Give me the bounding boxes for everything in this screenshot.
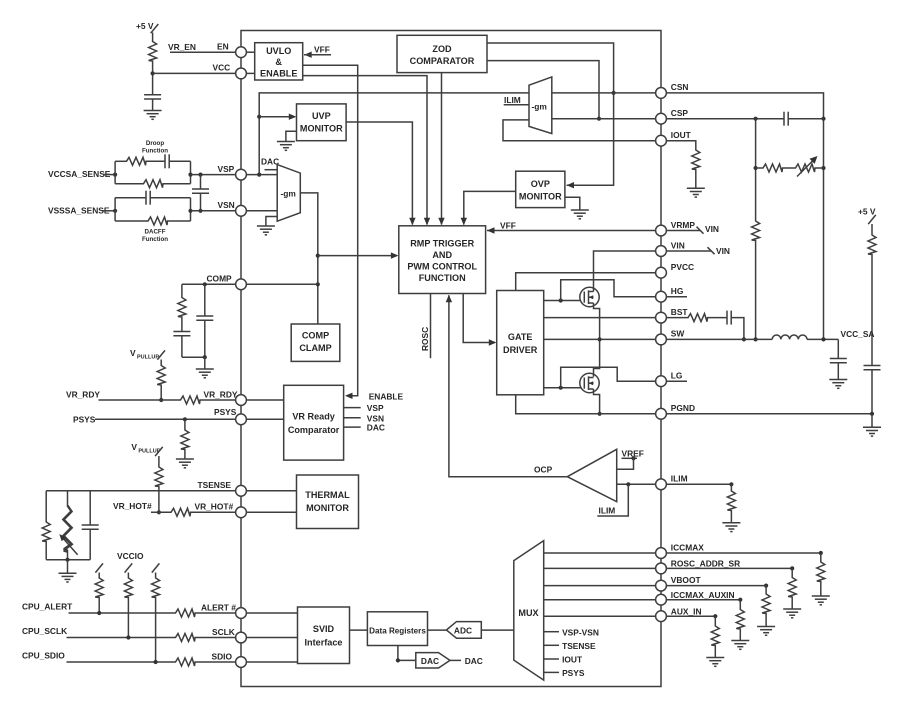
node VBOOT pulldown xyxy=(764,584,768,588)
pin VBOOT xyxy=(656,575,702,591)
wire VSP pin to droop amp xyxy=(246,174,277,176)
wire DACFF network left bar xyxy=(114,198,116,221)
node thermistor network bottom xyxy=(65,558,69,562)
node ZOD CSP junction xyxy=(597,117,601,121)
wire resistor to VCC node xyxy=(152,62,154,94)
wire gate driver SW output xyxy=(544,338,656,340)
svg-text:CPU_SCLK: CPU_SCLK xyxy=(22,626,67,636)
svg-text:VSP-VSN: VSP-VSN xyxy=(562,627,599,637)
resistor +5V PVCC xyxy=(868,234,876,256)
wire droop network to VSP pin xyxy=(191,174,236,176)
svg-text:VRMP: VRMP xyxy=(671,220,696,230)
pin ALERT# xyxy=(201,602,246,618)
wire DACFF network to VSN pin xyxy=(191,210,236,212)
wire VBOOT pin external xyxy=(666,585,766,587)
wire VFF from VRMP pin to RMP trigger xyxy=(487,227,656,233)
ground ICCMAX_AUXIN xyxy=(731,641,749,650)
op-amp droop -gm xyxy=(277,165,300,222)
wire UVP monitor ground lead xyxy=(286,131,297,141)
block SVID Interface xyxy=(298,607,350,664)
node VR_HOT# pullup xyxy=(157,510,161,514)
block GATE DRIVER xyxy=(497,291,544,395)
svg-text:THERMAL: THERMAL xyxy=(305,490,350,500)
resistor VBOOT pulldown xyxy=(762,586,770,627)
pin IOUT xyxy=(656,130,692,146)
wire PSYS to pin xyxy=(95,418,236,420)
svg-text:V: V xyxy=(131,442,137,452)
resistor BST xyxy=(687,314,709,322)
net VSP stub at comparator xyxy=(344,403,384,413)
wire TSENSE pin to thermal monitor xyxy=(246,490,296,492)
resistor VR_HOT# pullup xyxy=(155,466,163,488)
net ROSC stub from RMP trigger xyxy=(420,294,431,359)
svg-text:+5 V: +5 V xyxy=(136,21,154,31)
wire SCLK pin to SVID xyxy=(246,637,297,639)
wire CSP vertical to SW xyxy=(755,119,757,220)
ground VCC cap xyxy=(144,111,162,120)
node VCC junction xyxy=(151,71,155,75)
inductor L1 xyxy=(772,335,807,339)
wire VCC pin to UVLO xyxy=(246,72,254,74)
node ZOD CSN junction xyxy=(612,91,616,95)
wire comp network to ground xyxy=(204,357,206,369)
wire CS amp to CSP pin xyxy=(552,118,656,120)
svg-text:DAC: DAC xyxy=(465,656,483,666)
pin SW xyxy=(656,329,685,345)
capacitor thermistor network xyxy=(82,525,99,529)
wire DAC stub into droop amp xyxy=(265,169,278,171)
ground ICCMAX xyxy=(812,596,830,605)
wire V_PULLUP to resistor xyxy=(160,360,162,365)
svg-text:DRIVER: DRIVER xyxy=(503,345,538,355)
svg-text:SDIO: SDIO xyxy=(212,651,233,661)
capacitor +5V rail xyxy=(864,366,881,370)
wire ALERT to pin xyxy=(196,612,236,614)
svg-text:CSN: CSN xyxy=(671,82,689,92)
capacitor CSP-CSN sense xyxy=(784,112,788,126)
capacitor BST xyxy=(727,311,731,325)
wire comp left branch upper xyxy=(181,284,183,296)
node comp network bottom xyxy=(203,355,207,359)
wire left branch bottom xyxy=(45,543,47,560)
ground VBOOT xyxy=(757,627,775,636)
svg-text:VR_RDY: VR_RDY xyxy=(66,389,100,399)
wire gate driver HG output xyxy=(544,300,581,302)
wire ICCMAX_AUXIN pin external xyxy=(666,599,740,601)
wire SDIO pin to SVID xyxy=(246,661,297,663)
wire UVLO to RMP trigger arrow 2 xyxy=(303,76,431,226)
wire PSYS resistor to ground xyxy=(184,451,186,460)
svg-text:PSYS: PSYS xyxy=(214,407,237,417)
resistor PSYS pulldown xyxy=(181,429,189,451)
wire CSP resistor to SW line xyxy=(755,242,757,340)
wire droop amp ground lead xyxy=(266,217,277,227)
svg-text:VCC_SA: VCC_SA xyxy=(841,329,875,339)
ground IOUT xyxy=(687,188,705,197)
net ILIM label at OCP xyxy=(597,484,628,516)
wire middle branch bottom xyxy=(67,554,69,560)
svg-text:BST: BST xyxy=(671,307,689,317)
wire CSP pin external xyxy=(666,118,784,120)
resistor +5V VCC xyxy=(149,40,157,62)
wire PSYS node to resistor xyxy=(184,419,186,428)
ground ILIM xyxy=(722,523,740,532)
wire OCP output to RMP trigger xyxy=(446,295,568,477)
wire VR_HOT# left segment xyxy=(151,511,170,513)
wire SDIO to pin xyxy=(196,661,236,663)
svg-text:VCC: VCC xyxy=(213,63,231,73)
svg-text:VBOOT: VBOOT xyxy=(671,575,702,585)
wire VR_HOT# to pin xyxy=(192,511,236,513)
capacitor VCC_SA output xyxy=(830,359,847,363)
wire pullup resistor to VR_RDY line xyxy=(160,386,162,400)
wire OVP output to RMP trigger arrow 4 xyxy=(461,191,516,225)
wire DACFF bottom right xyxy=(169,220,191,222)
pin AUX_IN xyxy=(656,607,702,622)
block ADC xyxy=(446,622,481,639)
wire thermistor network left branch top xyxy=(45,491,47,521)
svg-text:SVID: SVID xyxy=(313,624,335,634)
svg-text:DAC: DAC xyxy=(261,157,279,167)
net DAC output stub xyxy=(450,656,483,666)
resistor ALERT series xyxy=(174,609,196,617)
wire PGND pin external xyxy=(666,413,872,415)
wire cap to PGND line xyxy=(871,370,873,414)
wire VR_RDY pin to comparator xyxy=(246,399,283,401)
svg-text:PULLUP: PULLUP xyxy=(137,355,159,361)
capacitor VCC decoupling xyxy=(144,95,161,99)
wire arrow into UVP monitor xyxy=(259,114,296,120)
svg-text:VR_HOT#: VR_HOT# xyxy=(113,501,152,511)
wire PVCC to gate driver xyxy=(516,273,656,291)
wire PGND node to ground xyxy=(871,414,873,428)
wire VR_EN to EN pin xyxy=(170,51,236,53)
svg-text:CSP: CSP xyxy=(671,108,689,118)
svg-text:ICCMAX: ICCMAX xyxy=(671,542,704,552)
wire comp right branch upper xyxy=(204,284,206,316)
block Data Registers xyxy=(367,612,427,646)
wire ILIM stub into CS amp xyxy=(504,104,529,106)
svg-text:VSSSA_SENSE: VSSSA_SENSE xyxy=(48,206,110,216)
svg-text:CLAMP: CLAMP xyxy=(299,343,331,353)
capacitor compensation series xyxy=(173,332,190,336)
pin TSENSE xyxy=(198,480,247,496)
svg-text:EN: EN xyxy=(217,42,229,52)
svg-text:PWM CONTROL: PWM CONTROL xyxy=(407,262,477,272)
block ZOD COMPARATOR xyxy=(397,35,487,72)
wire MUX to ROSC pin xyxy=(544,567,656,569)
wire resistor to cap xyxy=(871,256,873,366)
resistor ICCMAX_AUXIN pulldown xyxy=(736,600,744,641)
wire inductor to VCC_SA xyxy=(807,338,838,340)
pin PVCC xyxy=(656,262,694,278)
wire ROSC pin external xyxy=(666,567,792,569)
ground droop amp xyxy=(257,226,275,235)
wire droop top branch left xyxy=(115,160,125,162)
svg-text:OCP: OCP xyxy=(534,465,553,475)
wire ADC to MUX xyxy=(481,629,514,631)
wire VIN to Q1 drain xyxy=(594,251,656,292)
resistor sense row variable xyxy=(784,156,824,177)
wire thermistor right branch top xyxy=(89,491,91,525)
node BST SW junction xyxy=(742,337,746,341)
wire arrow into RMP trigger left xyxy=(318,252,399,258)
wire SVID to Data Registers xyxy=(350,629,368,631)
pin COMP xyxy=(207,274,247,290)
wire capacitor to ground xyxy=(152,99,154,111)
svg-text:ENABLE: ENABLE xyxy=(369,392,404,402)
svg-text:ADC: ADC xyxy=(454,626,472,636)
node CSN res junction xyxy=(821,166,825,170)
svg-text:VR_HOT#: VR_HOT# xyxy=(195,502,234,512)
ground PGND xyxy=(863,427,881,436)
wire Q2 source to PGND xyxy=(594,389,600,414)
resistor ICCMAX pulldown xyxy=(817,553,825,596)
transistor Q2 low-side FET xyxy=(580,373,599,392)
svg-text:LG: LG xyxy=(671,371,683,381)
pin EN xyxy=(217,42,246,58)
node CSP SW junction xyxy=(754,337,758,341)
svg-text:VSP: VSP xyxy=(218,164,235,174)
svg-text:Function: Function xyxy=(142,236,168,243)
wire droop top right xyxy=(169,160,190,162)
svg-text:ALERT #: ALERT # xyxy=(201,602,236,612)
svg-text:RMP TRIGGER: RMP TRIGGER xyxy=(410,239,474,249)
net HG stub xyxy=(666,296,687,298)
ground VCC_SA xyxy=(829,380,847,389)
block VR Ready Comparator xyxy=(284,385,344,460)
net IOUT stub at MUX xyxy=(544,655,583,665)
svg-text:ILIM: ILIM xyxy=(599,506,616,516)
svg-text:V: V xyxy=(130,348,136,358)
wire Data Registers to ADC xyxy=(428,629,447,631)
wire gate driver LG output xyxy=(544,387,581,389)
net PSYS stub at MUX xyxy=(544,668,585,678)
wire CPU_SCLK line xyxy=(67,637,175,639)
wire DACFF top right xyxy=(150,197,190,199)
label Droop Function xyxy=(142,140,168,155)
wire OVP monitor ground lead xyxy=(565,197,580,210)
op-amp current sense -gm xyxy=(529,77,552,134)
svg-text:AND: AND xyxy=(432,250,452,260)
svg-text:VSN: VSN xyxy=(218,200,235,210)
resistor droop top xyxy=(125,157,147,165)
svg-text:VFF: VFF xyxy=(314,45,330,55)
capacitor VSP-VSN xyxy=(192,189,209,193)
wire BST pin external xyxy=(666,317,686,319)
block THERMAL MONITOR xyxy=(297,475,359,529)
wire AUX_IN pin external xyxy=(666,615,715,617)
svg-text:Comparator: Comparator xyxy=(288,425,340,435)
wire HG node to HG pin xyxy=(561,280,656,301)
svg-text:ENABLE: ENABLE xyxy=(260,69,297,79)
node HG gate junction xyxy=(559,298,563,302)
svg-text:VCCIO: VCCIO xyxy=(117,551,144,561)
pin SCLK xyxy=(212,627,246,643)
svg-text:GATE: GATE xyxy=(508,332,533,342)
resistor SCLK series xyxy=(174,634,196,642)
pin SDIO xyxy=(212,651,247,667)
wire thermistor middle branch top xyxy=(67,491,69,502)
wire droop network right bar xyxy=(190,161,192,183)
node PSYS pulldown xyxy=(183,417,187,421)
wire IOUT pin external xyxy=(666,141,695,149)
resistor DACFF bottom xyxy=(147,217,169,225)
wire VSP to VSN cap lower xyxy=(200,193,202,211)
node OCP ILIM junction xyxy=(626,482,630,486)
thermistor NTC xyxy=(59,502,77,555)
pin HG xyxy=(656,286,684,302)
svg-text:VR_EN: VR_EN xyxy=(168,42,196,52)
capacitor compensation parallel xyxy=(196,316,213,320)
svg-text:ILIM: ILIM xyxy=(671,474,688,484)
svg-text:CPU_SDIO: CPU_SDIO xyxy=(22,651,65,661)
wire droop top middle xyxy=(147,160,165,162)
arrow ENABLE into VR Ready comparator xyxy=(345,393,353,399)
svg-text:VSP: VSP xyxy=(367,403,384,413)
net VREF label xyxy=(617,448,644,469)
node UVP tap xyxy=(257,115,261,119)
wire VCC_SA to output cap xyxy=(837,339,839,358)
wire +5V to resistor xyxy=(152,33,154,41)
ground comp network xyxy=(196,369,214,378)
svg-text:ICCMAX_AUXIN: ICCMAX_AUXIN xyxy=(671,590,735,600)
svg-text:Data Registers: Data Registers xyxy=(369,626,426,635)
node DACFF network right xyxy=(188,209,192,213)
resistor CSP vertical xyxy=(752,220,760,242)
node CSN cap junction xyxy=(821,117,825,121)
net VSP-VSN stub at MUX xyxy=(544,627,599,637)
net VCCIO tap SDIO xyxy=(152,563,160,572)
wire COMP external xyxy=(182,283,236,285)
net V_PULLUP label 2 xyxy=(131,442,162,456)
wire CPU_ALERT line xyxy=(69,612,175,614)
svg-text:TSENSE: TSENSE xyxy=(198,480,232,490)
node droop network left xyxy=(113,173,117,177)
svg-text:Interface: Interface xyxy=(305,638,343,648)
node PGND junction xyxy=(598,412,602,416)
wire comp left branch middle xyxy=(181,318,183,332)
ground PSYS xyxy=(176,459,194,468)
wire LG node to LG pin xyxy=(561,367,656,388)
node ICCMAX pulldown xyxy=(819,551,823,555)
wire COMP pin to internal node xyxy=(246,283,317,285)
wire CSN pin to output sense xyxy=(666,93,823,340)
wire VR_HOT# pin to thermal monitor xyxy=(246,511,296,513)
+5V supply label xyxy=(136,21,158,33)
wire V_PULLUP 2 to resistor xyxy=(158,456,160,466)
resistor compensation xyxy=(178,296,186,318)
node VSP UVP tap xyxy=(257,173,261,177)
svg-text:COMP: COMP xyxy=(207,274,233,284)
wire VCC node to VCC pin xyxy=(153,72,236,74)
wire right branch bottom xyxy=(89,529,91,560)
node DAC corner xyxy=(396,658,400,662)
wire UVLO ENABLE output to VR Ready comparator xyxy=(303,65,358,396)
svg-text:VIN: VIN xyxy=(671,240,685,250)
wire thermistor network bottom join xyxy=(46,559,90,561)
net VIN tag at VIN pin xyxy=(666,246,730,256)
svg-text:PSYS: PSYS xyxy=(562,668,585,678)
block UVLO & ENABLE xyxy=(255,43,303,80)
svg-text:Function: Function xyxy=(142,148,168,155)
wire droop amp output to RMP trigger xyxy=(300,193,318,324)
svg-text:VCCSA_SENSE: VCCSA_SENSE xyxy=(48,169,111,179)
node ROSC pulldown xyxy=(790,566,794,570)
wire TSENSE line xyxy=(46,490,235,492)
svg-text:DAC: DAC xyxy=(421,656,439,666)
pin ILIM xyxy=(656,474,688,490)
node SDIO pullup xyxy=(154,660,158,664)
wire network bottom to ground xyxy=(67,560,69,574)
wire IOUT resistor to ground xyxy=(695,171,697,189)
capacitor DACFF top xyxy=(146,191,150,205)
pin ICCMAX xyxy=(656,542,705,558)
wire droop bottom branch left xyxy=(115,183,142,185)
block DAC xyxy=(416,653,450,668)
resistor SDIO series xyxy=(174,658,196,666)
svg-text:DACFF: DACFF xyxy=(145,229,166,236)
svg-text:TSENSE: TSENSE xyxy=(562,641,596,651)
block OVP MONITOR xyxy=(516,171,565,207)
wire MUX to ICCMAX pin xyxy=(544,552,656,554)
ground AUX_IN xyxy=(706,658,724,667)
resistor VR_HOT# series xyxy=(170,508,192,516)
svg-text:ZOD: ZOD xyxy=(432,44,452,54)
wire DACFF network right bar xyxy=(190,198,192,221)
wire VSP sense up to UVP and droop amp input xyxy=(259,93,529,175)
wire CS amp to IOUT pin xyxy=(503,120,656,141)
wire MUX to ICCMAX_AUXIN pin xyxy=(544,599,656,601)
resistor VR_RDY series xyxy=(179,396,201,404)
pin ICCMAX_AUXIN xyxy=(656,590,735,605)
resistor sense row fixed xyxy=(756,164,784,172)
ground UVP monitor xyxy=(277,142,295,151)
svg-text:SW: SW xyxy=(671,329,685,339)
svg-text:CPU_ALERT: CPU_ALERT xyxy=(22,602,73,612)
arrow into OVP monitor xyxy=(567,182,575,188)
node PGND ground junction xyxy=(870,412,874,416)
pin BST xyxy=(656,307,689,323)
label DACFF Function xyxy=(142,229,168,244)
wire pullup to VR_HOT# line xyxy=(158,488,160,513)
wire CS amp to CSN pin xyxy=(552,92,656,94)
svg-text:ROSC: ROSC xyxy=(420,327,430,351)
node LG gate junction xyxy=(559,386,563,390)
pin LG xyxy=(656,371,683,387)
pin CSN xyxy=(656,82,689,98)
wire Q1 source to SW node xyxy=(594,303,600,377)
svg-text:PSYS: PSYS xyxy=(73,415,96,425)
svg-text:COMP: COMP xyxy=(302,331,329,341)
resistor thermistor network left xyxy=(42,521,50,543)
wire gate driver to PGND xyxy=(516,395,656,414)
block UVP MONITOR xyxy=(297,104,347,141)
block RMP TRIGGER AND PWM CONTROL FUNCTION xyxy=(399,226,486,294)
wire ZOD to RMP trigger arrow 3 xyxy=(438,73,444,226)
net DAC stub at comparator xyxy=(344,423,385,433)
node SW junction xyxy=(598,337,602,341)
wire gate driver BST output xyxy=(544,317,656,319)
pin ROSC_ADDR_SR xyxy=(656,559,741,574)
node VSP cap tap xyxy=(198,173,202,177)
wire RMP trigger to gate driver xyxy=(463,294,496,346)
node COMP junction xyxy=(316,282,320,286)
svg-text:MONITOR: MONITOR xyxy=(519,192,562,202)
wire ZOD to CSN and OVP monitor xyxy=(487,43,614,185)
pin CSP xyxy=(656,108,689,124)
node COMP comp network xyxy=(203,282,207,286)
